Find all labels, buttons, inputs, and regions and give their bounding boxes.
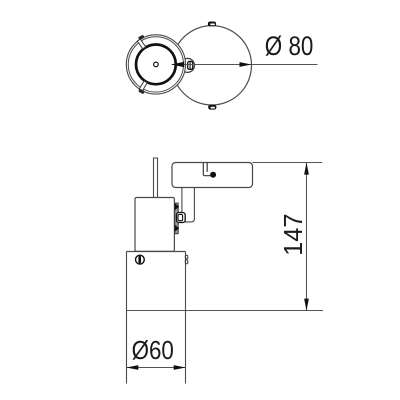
svg-text:Ø60: Ø60 (132, 336, 174, 365)
arrowhead down (147) (304, 299, 309, 311)
lamp head center hole (154, 62, 159, 67)
arrowhead left (D60) (126, 365, 138, 370)
canopy circle (top view, D80) (172, 26, 251, 105)
arrowhead up (147) (304, 163, 309, 175)
ceiling canopy (front view) (172, 163, 253, 188)
cylinder screw (136, 255, 145, 264)
clamp tab top (175, 203, 180, 210)
head clip upper-left (137, 39, 145, 49)
canopy terminal screw (210, 172, 216, 178)
extension line top (147) (252, 162, 322, 164)
canopy terminal bracket (203, 163, 212, 176)
arrowhead right (D80) (240, 62, 252, 67)
cylinder side latch (185, 255, 188, 263)
arrowhead right (D60) (174, 365, 186, 370)
dimension line D60 (126, 367, 186, 369)
joint knob (front view) (177, 213, 186, 223)
svg-text:Ø 80: Ø 80 (265, 32, 314, 61)
lamp bottom edge / extension line bottom (147) (126, 310, 323, 312)
dimension line D80 (172, 64, 318, 66)
ball joint knob (top view) (181, 58, 195, 72)
canopy bottom screw tab (208, 105, 216, 110)
svg-text:147: 147 (280, 213, 308, 256)
joint clamp plate (175, 203, 179, 234)
mounting arm (182, 188, 195, 222)
head clip lower-left (139, 81, 147, 91)
lamp head face ring (bold) (136, 45, 176, 85)
lamp head outer rim (top view) (126, 35, 185, 94)
lamp head inner rim ring (128, 37, 183, 92)
ball joint knob clamp (top view) (188, 61, 193, 69)
arrowhead left (D80) (171, 62, 184, 67)
lamp cylinder (front view, D60) (127, 252, 186, 384)
clamp tab bottom (175, 225, 180, 232)
canopy top screw tab (208, 22, 216, 27)
suspension cable (front view) (154, 158, 158, 198)
dimension line 147 (306, 163, 308, 311)
lamp head body (front view) (135, 198, 174, 252)
